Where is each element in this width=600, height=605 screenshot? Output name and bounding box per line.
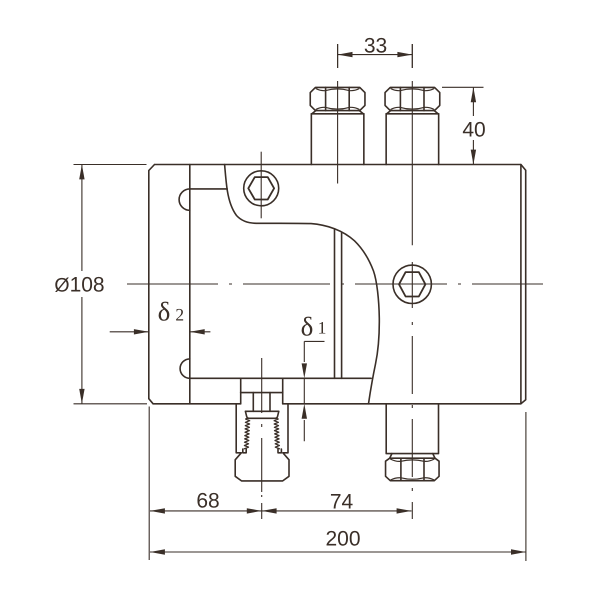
hex nut N1	[386, 458, 440, 481]
svg-text:2: 2	[175, 305, 184, 325]
socket screw U1 hex	[248, 177, 274, 199]
svg-text:δ: δ	[158, 297, 171, 327]
arrow d1 down	[302, 363, 307, 378]
lower bolt shaft	[386, 404, 438, 454]
stud thread left	[244, 418, 250, 449]
knob	[235, 453, 289, 481]
arrow 40 up	[471, 87, 476, 102]
lower nut washer	[390, 454, 435, 459]
dim 74 line	[262, 510, 412, 512]
socket screw U2 circle	[393, 265, 431, 303]
bolt B2 head	[385, 87, 440, 110]
centerline screw U1	[260, 152, 262, 219]
arrow d1 up	[302, 404, 307, 419]
thread runout notch right	[278, 449, 281, 453]
arrow d2 left	[190, 329, 205, 334]
bottom slit horizontal	[190, 377, 371, 379]
stud thread right	[274, 418, 280, 449]
dimension graphics	[74, 44, 526, 561]
cam curve	[225, 165, 380, 404]
arrow 68 left	[150, 508, 165, 513]
dim o108 ext lines	[74, 165, 148, 404]
body outline	[149, 165, 526, 404]
bottom relief arc	[180, 359, 190, 378]
bolt B1 head	[310, 87, 365, 110]
right chamfer line	[520, 165, 522, 404]
svg-text:68: 68	[196, 490, 219, 513]
horizontal centerline	[127, 283, 543, 285]
svg-text:1: 1	[318, 318, 327, 338]
ext left	[148, 407, 150, 561]
socket screw U1 circle	[244, 171, 279, 206]
arrow o108 up	[79, 165, 84, 180]
hex nut N1 face lines	[400, 459, 402, 481]
bolt B2 head arcs	[391, 89, 434, 110]
dim 40 top ext	[442, 86, 484, 88]
bolt B1 washer	[311, 111, 364, 114]
top relief arc	[179, 189, 190, 210]
stud stem	[253, 393, 270, 412]
arrow 200 left	[150, 549, 165, 554]
bolt B1 head arcs	[316, 89, 359, 110]
dim 68 line	[150, 510, 262, 512]
svg-text:200: 200	[325, 528, 360, 551]
arrow d2 right	[134, 329, 149, 334]
centerline stud	[261, 358, 263, 519]
centerline bolt B1	[337, 44, 339, 184]
sleeve sides	[236, 404, 288, 453]
thread runout notch left	[243, 449, 246, 453]
bolt B1 head face lines	[325, 87, 327, 110]
arrow 74 right	[397, 508, 412, 513]
T-slot inner ledges	[241, 392, 283, 394]
arrow 33 right	[397, 52, 412, 57]
dim 200 line	[150, 551, 526, 553]
T-slot boss sides	[241, 378, 283, 404]
arrowheads	[79, 52, 526, 555]
centerline bolt B2 / screw U2 / nut	[411, 44, 413, 519]
dim 33 ext lines	[338, 44, 413, 68]
stud collar	[245, 411, 278, 418]
arrow 40 down	[471, 150, 476, 165]
bolt B2 washer	[386, 111, 439, 114]
dim d2 arrows lines	[110, 331, 211, 333]
arrow o108 down	[79, 389, 84, 404]
bolt B1 shaft	[311, 114, 364, 165]
socket screw U2 hex	[399, 272, 425, 296]
inner left vertical (slit line)	[189, 165, 191, 404]
dim 40 line	[472, 87, 474, 164]
dim 33 line	[338, 54, 413, 56]
svg-text:74: 74	[330, 491, 354, 514]
dim d1 leader	[304, 341, 324, 441]
bolt B2 head face lines	[399, 87, 401, 110]
dim o108 line	[81, 165, 83, 404]
vertical slit right line	[341, 233, 343, 378]
top slit horizontal	[190, 188, 227, 190]
arrow 68 right	[247, 508, 262, 513]
arrow 33 left	[338, 52, 353, 57]
arrow 200 right	[511, 549, 526, 554]
hex nut N1 arcs	[391, 459, 435, 480]
vertical slit left line	[334, 229, 336, 378]
svg-text:33: 33	[364, 35, 387, 58]
arrow 74 left	[262, 508, 277, 513]
bolt B2 shaft	[386, 114, 439, 165]
svg-text:Ø108: Ø108	[54, 274, 104, 297]
center lines	[127, 44, 543, 519]
ext right	[525, 412, 527, 561]
svg-text:40: 40	[462, 119, 485, 142]
svg-text:δ: δ	[301, 312, 314, 342]
